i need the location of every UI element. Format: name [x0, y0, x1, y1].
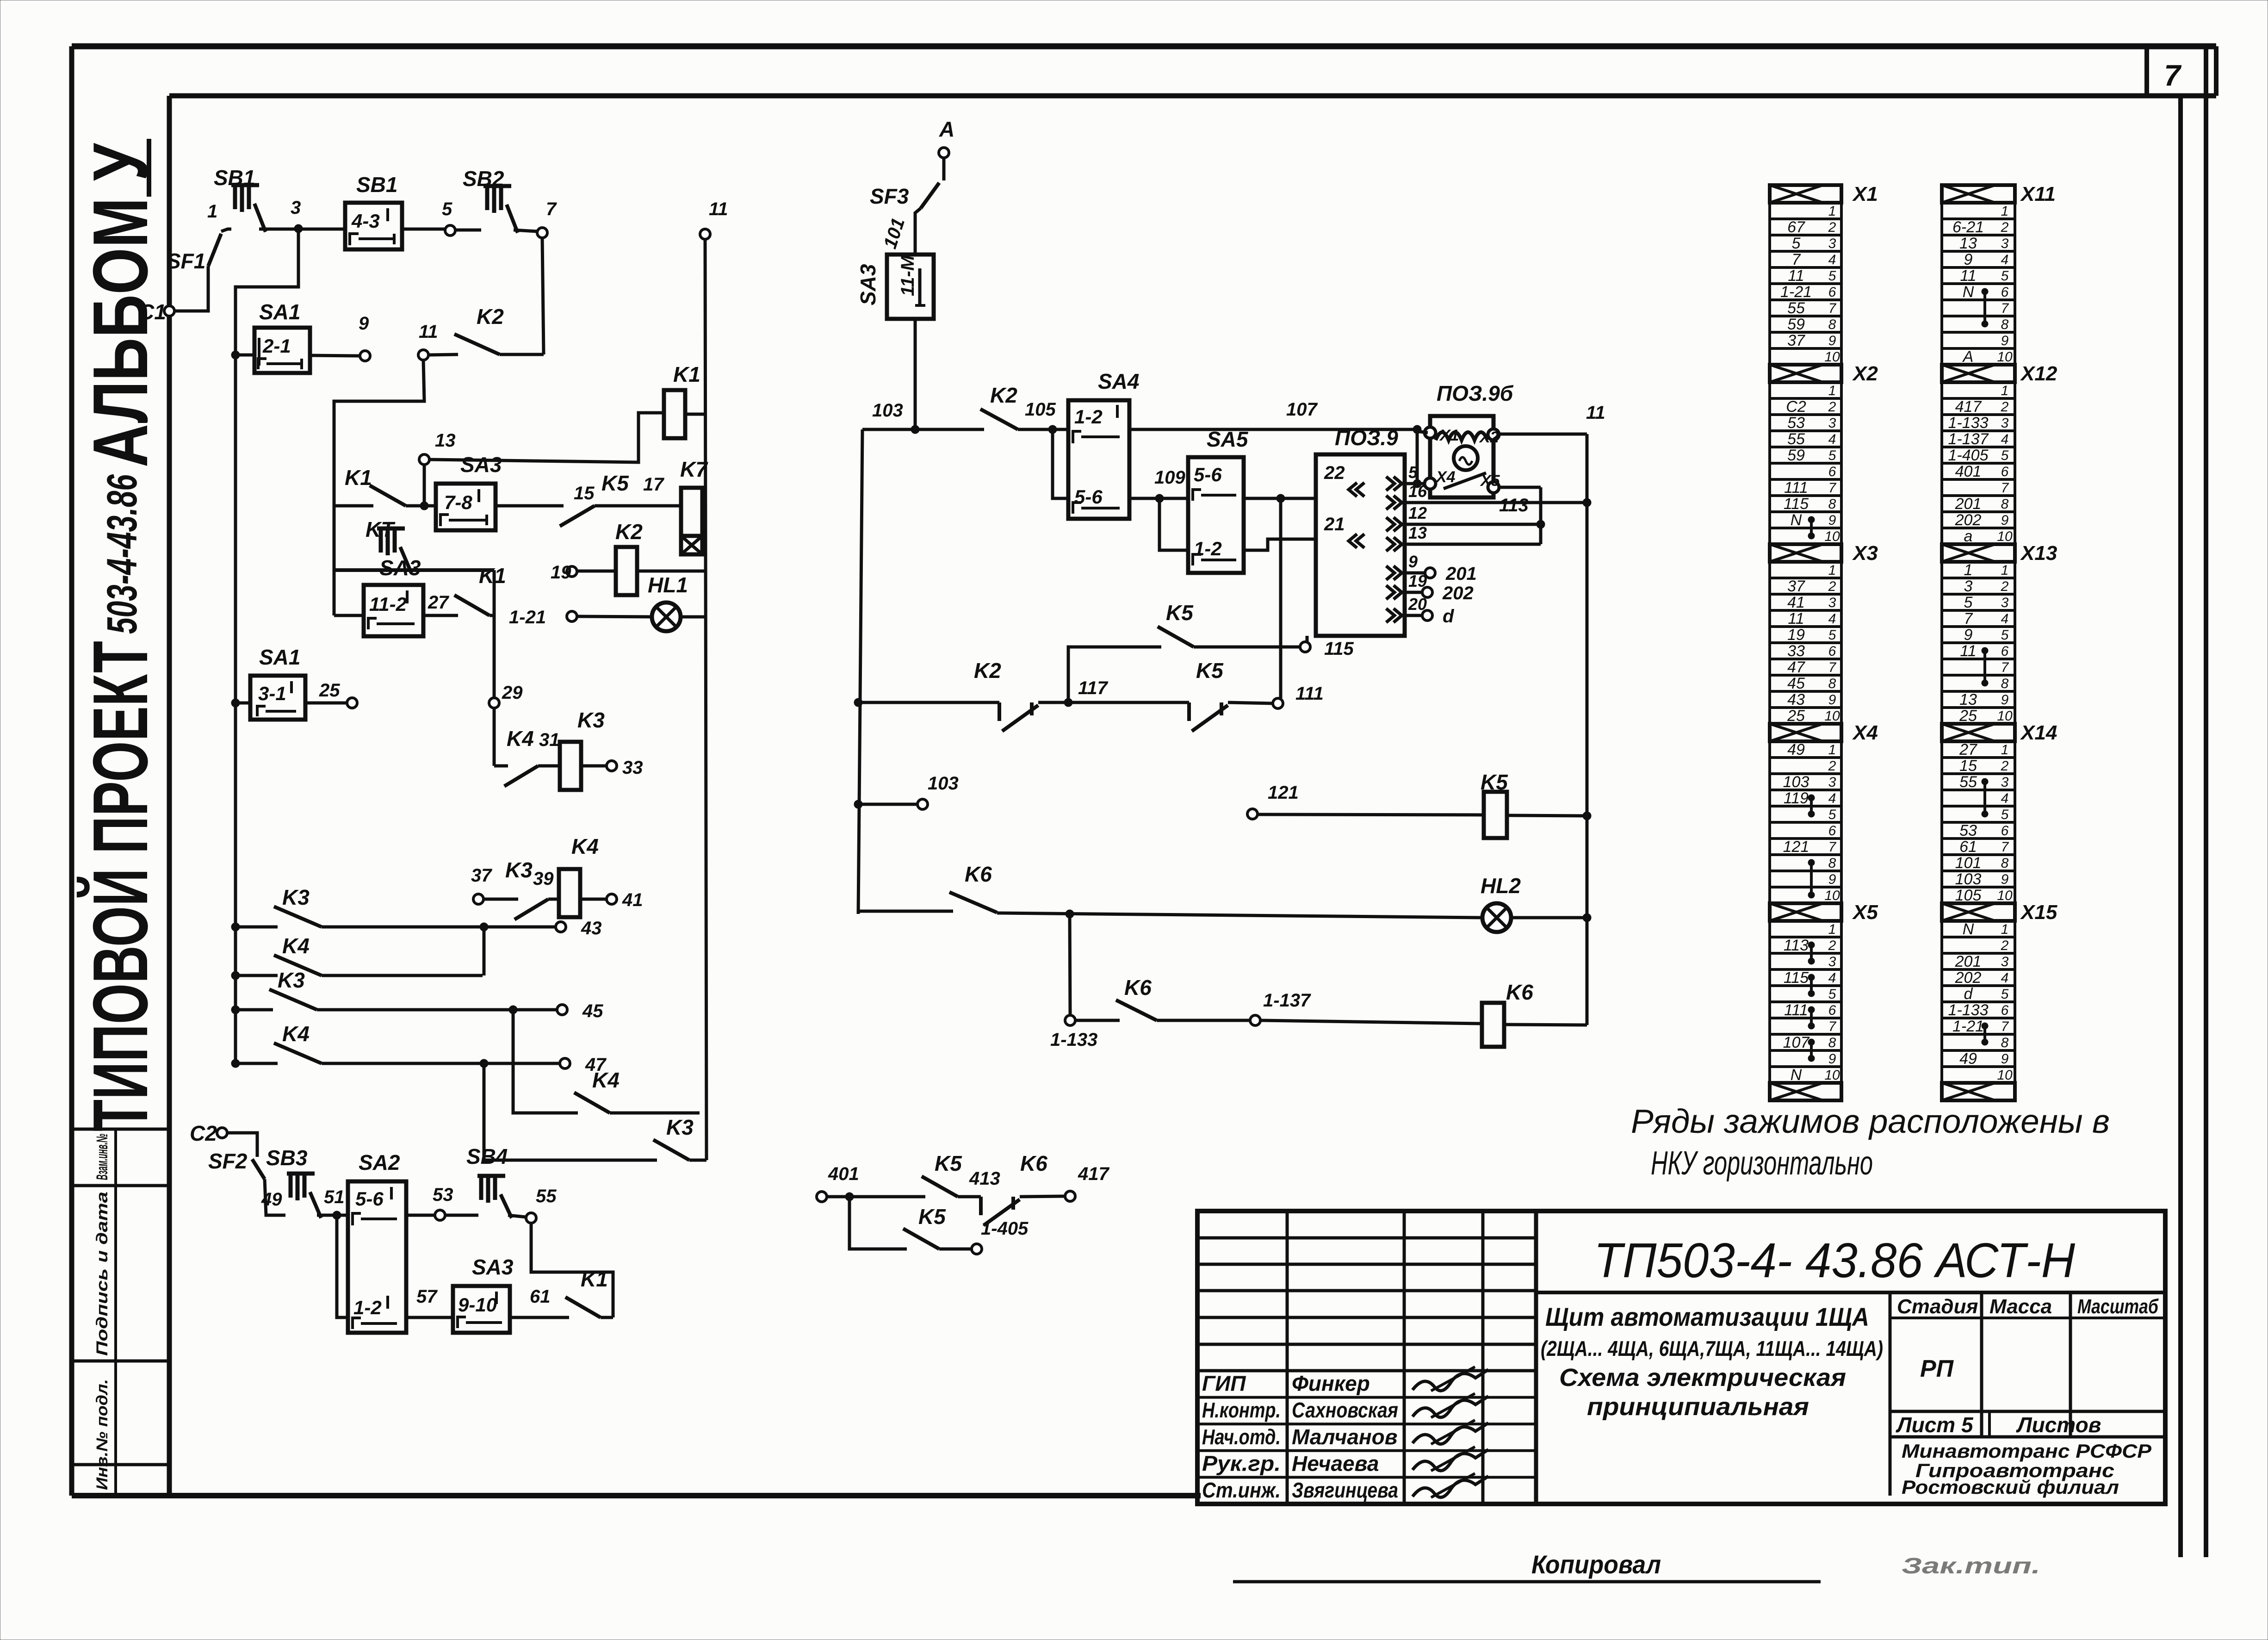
- svg-text:(2ЩА... 4ЩА, 6ЩА,7ЩА, 11ЩА...: (2ЩА... 4ЩА, 6ЩА,7ЩА, 11ЩА... 14ЩА): [1541, 1336, 1883, 1360]
- svg-text:C1: C1: [139, 300, 166, 324]
- svg-text:9: 9: [1828, 872, 1836, 887]
- svg-text:Сахновская: Сахновская: [1292, 1398, 1398, 1422]
- svg-text:4: 4: [2001, 611, 2009, 627]
- svg-text:111: 111: [1295, 683, 1324, 704]
- svg-text:X4: X4: [1435, 468, 1456, 486]
- svg-text:33: 33: [1787, 642, 1805, 660]
- svg-text:5: 5: [2001, 448, 2009, 463]
- svg-text:Копировал: Копировал: [1531, 1550, 1661, 1579]
- svg-text:115: 115: [1784, 495, 1809, 513]
- svg-text:1: 1: [2001, 383, 2009, 398]
- svg-text:6: 6: [1828, 823, 1836, 839]
- svg-text:41: 41: [1787, 594, 1805, 611]
- svg-text:X1: X1: [1852, 183, 1878, 205]
- svg-text:X4: X4: [1852, 721, 1878, 744]
- svg-text:8: 8: [1828, 856, 1836, 871]
- svg-text:Ряды зажимов расположены в: Ряды зажимов расположены в: [1631, 1103, 2110, 1140]
- svg-text:53: 53: [1959, 822, 1977, 839]
- svg-text:K4: K4: [282, 934, 310, 958]
- svg-text:Масса: Масса: [1989, 1295, 2052, 1318]
- svg-text:3: 3: [1828, 236, 1836, 251]
- svg-text:11: 11: [1960, 267, 1976, 285]
- svg-text:8: 8: [1828, 1035, 1836, 1050]
- svg-text:7: 7: [1792, 251, 1801, 268]
- svg-text:5: 5: [1828, 448, 1836, 463]
- svg-text:Нечаева: Нечаева: [1292, 1451, 1379, 1475]
- svg-text:7: 7: [1828, 839, 1837, 855]
- svg-text:61: 61: [1959, 838, 1977, 856]
- svg-text:K3: K3: [505, 858, 533, 882]
- svg-text:3: 3: [1828, 954, 1836, 969]
- svg-text:1: 1: [1828, 204, 1836, 219]
- svg-text:13: 13: [435, 430, 456, 451]
- svg-text:5-6: 5-6: [1194, 464, 1222, 485]
- svg-text:5: 5: [1828, 627, 1836, 643]
- svg-text:X15: X15: [2020, 901, 2057, 924]
- svg-text:K1: K1: [673, 362, 700, 386]
- svg-text:4: 4: [1828, 611, 1836, 627]
- svg-text:49: 49: [1959, 1050, 1977, 1068]
- svg-text:X5: X5: [1852, 901, 1878, 924]
- svg-text:SA3: SA3: [379, 556, 421, 580]
- svg-text:d: d: [1443, 606, 1455, 627]
- svg-text:4: 4: [2001, 791, 2009, 806]
- svg-text:10: 10: [1824, 708, 1840, 724]
- svg-text:1-133: 1-133: [1050, 1030, 1097, 1050]
- svg-text:Рук.гр.: Рук.гр.: [1202, 1451, 1281, 1475]
- svg-text:6: 6: [2001, 644, 2009, 659]
- svg-text:K7: K7: [680, 457, 708, 481]
- svg-text:5: 5: [1964, 594, 1973, 611]
- svg-text:21: 21: [1324, 514, 1345, 534]
- svg-text:9: 9: [2001, 513, 2009, 528]
- svg-text:111: 111: [1784, 1001, 1808, 1019]
- svg-text:10: 10: [1997, 349, 2013, 365]
- svg-text:Подпись и дата: Подпись и дата: [93, 1192, 111, 1356]
- svg-text:2: 2: [2001, 399, 2009, 415]
- svg-text:55: 55: [536, 1186, 557, 1206]
- svg-text:1: 1: [2001, 563, 2009, 578]
- svg-text:9: 9: [1828, 333, 1836, 348]
- svg-text:401: 401: [1955, 463, 1982, 480]
- svg-text:9: 9: [1964, 626, 1973, 644]
- svg-text:SB1: SB1: [214, 166, 255, 190]
- svg-text:55: 55: [1787, 430, 1805, 448]
- svg-text:7: 7: [2001, 1019, 2009, 1034]
- svg-text:1-2: 1-2: [353, 1297, 382, 1318]
- svg-text:67: 67: [1787, 218, 1805, 236]
- svg-text:9: 9: [1828, 692, 1836, 708]
- svg-text:принципиальная: принципиальная: [1587, 1393, 1809, 1421]
- svg-text:109: 109: [1154, 467, 1185, 488]
- svg-text:7: 7: [546, 199, 557, 219]
- svg-text:C2: C2: [1786, 398, 1806, 416]
- svg-text:7: 7: [2001, 301, 2009, 316]
- svg-text:6: 6: [2001, 1003, 2009, 1018]
- svg-text:121: 121: [1268, 783, 1299, 803]
- svg-text:SB1: SB1: [356, 173, 397, 197]
- svg-text:7: 7: [1828, 660, 1837, 675]
- svg-text:8: 8: [2001, 676, 2009, 691]
- svg-text:K6: K6: [1124, 975, 1152, 1000]
- svg-text:201: 201: [1445, 564, 1477, 584]
- svg-text:SA2: SA2: [359, 1150, 400, 1174]
- svg-text:113: 113: [1784, 937, 1809, 954]
- svg-text:ТП503-4- 43.86 АСТ-Н: ТП503-4- 43.86 АСТ-Н: [1594, 1233, 2075, 1288]
- svg-text:10: 10: [1997, 888, 2013, 903]
- svg-text:201: 201: [1955, 953, 1982, 970]
- svg-text:Нач.отд.: Нач.отд.: [1202, 1425, 1281, 1449]
- svg-text:202: 202: [1955, 969, 1982, 987]
- svg-text:9: 9: [1408, 552, 1418, 571]
- svg-text:4: 4: [2001, 970, 2009, 986]
- svg-text:103: 103: [872, 400, 903, 421]
- svg-text:2-1: 2-1: [262, 335, 291, 357]
- svg-text:3: 3: [2001, 595, 2009, 610]
- svg-text:5: 5: [1792, 235, 1801, 252]
- svg-text:11: 11: [1960, 642, 1976, 660]
- svg-text:X11: X11: [2020, 183, 2056, 205]
- svg-text:11: 11: [709, 199, 728, 219]
- svg-text:41: 41: [622, 890, 643, 910]
- svg-text:ГИП: ГИП: [1202, 1372, 1246, 1396]
- svg-text:A: A: [939, 117, 954, 141]
- svg-text:SB2: SB2: [463, 167, 504, 191]
- svg-text:SA5: SA5: [1207, 427, 1249, 451]
- svg-text:K1: K1: [345, 466, 372, 490]
- svg-text:Минавтотранс РСФСР: Минавтотранс РСФСР: [1902, 1440, 2152, 1462]
- svg-text:105: 105: [1025, 399, 1056, 420]
- svg-text:РП: РП: [1920, 1355, 1954, 1382]
- svg-text:103: 103: [1955, 870, 1982, 888]
- svg-text:2: 2: [2001, 220, 2009, 235]
- svg-text:103: 103: [1783, 773, 1809, 791]
- svg-text:SA1: SA1: [259, 300, 300, 324]
- svg-text:K5: K5: [935, 1151, 962, 1175]
- svg-text:НКУ горизонтально: НКУ горизонтально: [1651, 1145, 1873, 1182]
- svg-text:K3: K3: [666, 1115, 694, 1139]
- svg-text:9: 9: [2001, 872, 2009, 887]
- svg-text:ПОЗ.9: ПОЗ.9: [1335, 426, 1398, 450]
- svg-text:1: 1: [1828, 383, 1836, 398]
- svg-text:117: 117: [1078, 678, 1109, 698]
- svg-text:SF2: SF2: [208, 1149, 248, 1173]
- svg-text:53: 53: [1787, 414, 1805, 432]
- svg-text:Стадия: Стадия: [1897, 1295, 1978, 1318]
- svg-text:11: 11: [1586, 403, 1605, 423]
- svg-text:12: 12: [1408, 503, 1427, 522]
- svg-text:d: d: [1964, 985, 1973, 1003]
- svg-text:3: 3: [1828, 595, 1836, 610]
- svg-text:7: 7: [1828, 480, 1837, 496]
- svg-text:3: 3: [1828, 416, 1836, 431]
- svg-text:Зак.тип.: Зак.тип.: [1902, 1554, 2040, 1578]
- svg-text:5-6: 5-6: [355, 1188, 384, 1210]
- svg-text:X12: X12: [2020, 362, 2057, 385]
- svg-text:7: 7: [2164, 59, 2182, 92]
- svg-text:1-137: 1-137: [1263, 990, 1311, 1011]
- svg-text:N: N: [1963, 920, 1974, 938]
- svg-text:2: 2: [1828, 399, 1836, 415]
- svg-text:K2: K2: [990, 383, 1017, 407]
- svg-text:6: 6: [2001, 823, 2009, 839]
- svg-text:6: 6: [1828, 1003, 1836, 1018]
- svg-text:1-405: 1-405: [1948, 447, 1989, 464]
- svg-text:19: 19: [1787, 626, 1805, 644]
- svg-text:59: 59: [1787, 447, 1805, 464]
- svg-text:417: 417: [1955, 398, 1982, 416]
- svg-text:Финкер: Финкер: [1292, 1372, 1370, 1396]
- svg-text:K4: K4: [507, 727, 534, 751]
- svg-text:4: 4: [2001, 252, 2009, 267]
- svg-text:10: 10: [1997, 708, 2013, 724]
- svg-text:2: 2: [2001, 758, 2009, 774]
- svg-text:115: 115: [1324, 639, 1354, 659]
- svg-text:KT: KT: [366, 517, 396, 541]
- svg-text:5: 5: [442, 199, 452, 219]
- svg-text:29: 29: [502, 683, 523, 703]
- svg-text:K2: K2: [974, 658, 1001, 683]
- svg-text:202: 202: [1442, 583, 1474, 603]
- svg-text:9: 9: [1828, 1051, 1836, 1067]
- svg-text:5-6: 5-6: [1074, 486, 1103, 508]
- svg-text:8: 8: [2001, 1035, 2009, 1050]
- svg-text:Листов: Листов: [2016, 1413, 2101, 1437]
- svg-text:K2: K2: [615, 520, 643, 544]
- svg-text:13: 13: [1408, 523, 1427, 542]
- svg-text:K6: K6: [1020, 1151, 1047, 1175]
- svg-text:K3: K3: [282, 885, 310, 909]
- svg-text:5: 5: [2001, 987, 2009, 1002]
- svg-text:Взам.инв.№: Взам.инв.№: [93, 1134, 111, 1180]
- svg-text:K2: K2: [477, 304, 504, 329]
- svg-text:1-2: 1-2: [1194, 538, 1222, 559]
- svg-text:K6: K6: [965, 862, 992, 886]
- svg-text:5: 5: [2001, 268, 2009, 284]
- svg-text:K4: K4: [592, 1068, 620, 1092]
- svg-text:103: 103: [928, 773, 959, 794]
- svg-text:37: 37: [471, 865, 492, 886]
- svg-text:401: 401: [828, 1164, 859, 1184]
- svg-text:1: 1: [2001, 742, 2009, 758]
- svg-text:107: 107: [1286, 399, 1318, 420]
- svg-text:17: 17: [643, 474, 664, 495]
- svg-text:1-133: 1-133: [1948, 414, 1989, 432]
- svg-text:10: 10: [1824, 888, 1840, 903]
- svg-text:1: 1: [207, 201, 217, 222]
- svg-text:Звягинцева: Звягинцева: [1292, 1478, 1398, 1502]
- svg-text:Малчанов: Малчанов: [1292, 1425, 1398, 1449]
- svg-text:2: 2: [1828, 938, 1836, 953]
- svg-text:7-8: 7-8: [444, 491, 472, 513]
- svg-text:Ст.инж.: Ст.инж.: [1202, 1478, 1281, 1502]
- svg-text:25: 25: [319, 680, 340, 701]
- svg-text:27: 27: [1959, 741, 1977, 758]
- svg-text:9: 9: [359, 313, 369, 334]
- svg-text:6: 6: [1828, 285, 1836, 300]
- svg-text:1-2: 1-2: [1074, 406, 1103, 428]
- svg-text:X2: X2: [1479, 429, 1499, 446]
- svg-text:K4: K4: [282, 1022, 310, 1046]
- svg-text:115: 115: [1784, 969, 1809, 987]
- svg-text:8: 8: [2001, 317, 2009, 332]
- svg-text:47: 47: [1787, 658, 1805, 676]
- svg-text:HL2: HL2: [1481, 874, 1521, 898]
- svg-text:ПОЗ.9б: ПОЗ.9б: [1437, 381, 1514, 405]
- svg-text:2: 2: [2001, 579, 2009, 594]
- svg-text:N: N: [1963, 283, 1974, 301]
- svg-text:Ростовский филиал: Ростовский филиал: [1902, 1476, 2119, 1498]
- svg-text:6: 6: [2001, 464, 2009, 479]
- svg-text:22: 22: [1324, 463, 1345, 483]
- svg-text:1-21: 1-21: [1780, 283, 1812, 301]
- svg-text:202: 202: [1955, 511, 1982, 529]
- svg-text:27: 27: [428, 592, 449, 613]
- svg-text:3: 3: [2001, 236, 2009, 251]
- svg-text:33: 33: [622, 758, 643, 778]
- svg-text:45: 45: [582, 1001, 603, 1021]
- svg-text:3: 3: [1828, 775, 1836, 790]
- svg-text:8: 8: [1828, 497, 1836, 512]
- svg-text:7: 7: [1964, 610, 1973, 627]
- svg-text:37: 37: [1787, 332, 1805, 349]
- svg-text:55: 55: [1959, 773, 1977, 791]
- svg-text:10: 10: [1824, 1068, 1840, 1083]
- svg-text:Лист 5: Лист 5: [1896, 1413, 1974, 1437]
- svg-text:39: 39: [533, 869, 554, 889]
- svg-text:1: 1: [2001, 204, 2009, 219]
- svg-text:Н.контр.: Н.контр.: [1202, 1398, 1281, 1422]
- svg-text:Масштаб: Масштаб: [2077, 1295, 2159, 1318]
- svg-text:1-137: 1-137: [1948, 430, 1989, 448]
- svg-text:X14: X14: [2020, 721, 2057, 744]
- svg-text:K5: K5: [918, 1205, 946, 1229]
- svg-text:503-4-43.86: 503-4-43.86: [99, 474, 146, 634]
- svg-text:3: 3: [291, 198, 301, 218]
- svg-text:121: 121: [1783, 838, 1809, 856]
- svg-text:111: 111: [1784, 479, 1808, 497]
- svg-text:X2: X2: [1852, 362, 1878, 385]
- svg-text:6: 6: [1828, 644, 1836, 659]
- svg-text:SA4: SA4: [1098, 369, 1139, 393]
- svg-text:6-21: 6-21: [1952, 218, 1984, 236]
- svg-text:2: 2: [1828, 758, 1836, 774]
- svg-text:3: 3: [2001, 416, 2009, 431]
- svg-text:8: 8: [1828, 317, 1836, 332]
- svg-text:13: 13: [1959, 235, 1977, 252]
- svg-text:101: 101: [1955, 854, 1982, 872]
- svg-text:X13: X13: [2020, 542, 2057, 565]
- svg-text:7: 7: [2001, 839, 2009, 855]
- svg-text:53: 53: [433, 1185, 453, 1205]
- svg-text:SA3: SA3: [472, 1255, 514, 1279]
- svg-text:SA1: SA1: [259, 645, 300, 669]
- svg-text:11: 11: [1788, 267, 1804, 285]
- svg-text:2: 2: [1828, 579, 1836, 594]
- svg-text:19: 19: [551, 562, 571, 583]
- svg-text:9: 9: [1828, 513, 1836, 528]
- svg-text:1: 1: [1828, 563, 1836, 578]
- svg-text:8: 8: [2001, 856, 2009, 871]
- svg-text:10: 10: [1824, 529, 1840, 544]
- svg-text:1-21: 1-21: [1952, 1018, 1984, 1035]
- svg-text:37: 37: [1787, 578, 1805, 595]
- svg-text:3: 3: [2001, 775, 2009, 790]
- svg-text:SB3: SB3: [266, 1146, 308, 1170]
- svg-text:4-3: 4-3: [351, 210, 380, 232]
- svg-text:59: 59: [1787, 316, 1805, 333]
- svg-text:K4: K4: [571, 834, 599, 858]
- svg-text:3: 3: [1964, 578, 1973, 595]
- svg-text:119: 119: [1784, 789, 1809, 807]
- svg-text:ТИПОВОЙ ПРОЕКТ: ТИПОВОЙ ПРОЕКТ: [76, 641, 164, 1131]
- svg-text:9-10: 9-10: [458, 1294, 497, 1316]
- svg-text:8: 8: [2001, 497, 2009, 512]
- svg-text:2: 2: [2001, 938, 2009, 953]
- svg-text:K3: K3: [577, 708, 605, 732]
- svg-text:4: 4: [1828, 791, 1836, 806]
- svg-text:51: 51: [324, 1187, 345, 1207]
- svg-text:5: 5: [2001, 627, 2009, 643]
- svg-text:SF1: SF1: [167, 249, 205, 273]
- svg-text:HL1: HL1: [648, 573, 688, 597]
- svg-text:5: 5: [1828, 987, 1836, 1002]
- svg-text:7: 7: [1828, 1019, 1837, 1034]
- svg-text:10: 10: [1824, 349, 1840, 365]
- svg-text:15: 15: [574, 483, 595, 503]
- svg-text:11-M: 11-M: [898, 255, 918, 296]
- svg-text:7: 7: [2001, 480, 2009, 496]
- svg-text:201: 201: [1955, 495, 1982, 513]
- svg-text:6: 6: [2001, 285, 2009, 300]
- svg-text:6: 6: [1828, 464, 1836, 479]
- svg-text:K1: K1: [479, 564, 506, 588]
- svg-text:43: 43: [581, 918, 602, 938]
- svg-text:55: 55: [1787, 299, 1805, 317]
- svg-text:K5: K5: [1196, 658, 1224, 683]
- svg-text:7: 7: [1828, 301, 1837, 316]
- svg-text:X1: X1: [1439, 427, 1459, 444]
- svg-text:49: 49: [1787, 741, 1805, 758]
- svg-text:Щит автоматизации 1ЩА: Щит автоматизации 1ЩА: [1545, 1302, 1869, 1331]
- svg-text:SF3: SF3: [870, 184, 909, 208]
- svg-text:K1: K1: [581, 1267, 608, 1291]
- svg-text:K5: K5: [1481, 770, 1508, 794]
- svg-text:1: 1: [2001, 922, 2009, 937]
- svg-text:K5: K5: [601, 471, 629, 495]
- svg-text:5: 5: [2001, 807, 2009, 822]
- svg-text:X5: X5: [1480, 472, 1500, 490]
- svg-text:3: 3: [2001, 954, 2009, 969]
- svg-text:2: 2: [1828, 220, 1836, 235]
- svg-text:10: 10: [1997, 1068, 2013, 1083]
- svg-text:10: 10: [1997, 529, 2013, 544]
- svg-text:11: 11: [419, 322, 438, 342]
- svg-text:SB4: SB4: [466, 1144, 508, 1168]
- svg-text:5: 5: [1828, 807, 1836, 822]
- svg-text:Схема электрическая: Схема электрическая: [1559, 1364, 1846, 1392]
- svg-text:4: 4: [1828, 252, 1836, 267]
- svg-text:4: 4: [1828, 970, 1836, 986]
- svg-text:413: 413: [969, 1168, 1000, 1189]
- svg-text:57: 57: [416, 1286, 438, 1307]
- svg-text:Инв.№ подл.: Инв.№ подл.: [93, 1379, 111, 1490]
- svg-text:107: 107: [1783, 1034, 1810, 1051]
- svg-text:49: 49: [261, 1189, 282, 1210]
- svg-text:1-21: 1-21: [509, 607, 546, 627]
- svg-text:9: 9: [2001, 333, 2009, 348]
- svg-text:1: 1: [1828, 922, 1836, 937]
